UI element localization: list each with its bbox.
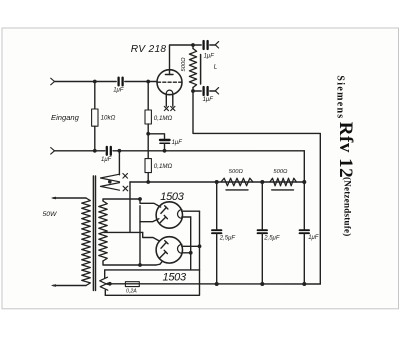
wire to V2 bottom [156, 261, 162, 265]
svg-text:0,1MΩ: 0,1MΩ [154, 163, 173, 170]
U1 cathode circle [166, 90, 173, 97]
capacitor C4 1uF (output top) [204, 41, 208, 49]
wire anode V1 step [140, 199, 161, 207]
V2 filament wires [182, 245, 200, 247]
wire bus x140 down [139, 206, 141, 265]
svg-text:1μF: 1μF [172, 140, 183, 146]
HV centre tap [104, 231, 143, 233]
node grid junction [146, 80, 150, 84]
capacitor C9 1uF [303, 182, 305, 229]
node wire1-10k junction [93, 80, 97, 84]
svg-text:1μF: 1μF [101, 157, 112, 163]
bottom rail [107, 283, 321, 285]
X marks W1 [123, 174, 128, 191]
svg-text:50W: 50W [43, 211, 58, 218]
T1 HV secondary winding [99, 201, 107, 261]
capacitor C7 2,5uF [216, 182, 218, 229]
svg-text:500Ω: 500Ω [229, 169, 244, 175]
wire V1 second anode [140, 219, 159, 222]
V2 filament tab [177, 244, 181, 253]
wire heater top lead [105, 270, 200, 278]
V1 electrodes [161, 207, 167, 213]
node bottom of choke [191, 89, 195, 93]
heater terminal X marks U1 [164, 106, 175, 110]
node top rail [191, 43, 195, 47]
wire2 right drop [303, 151, 305, 182]
svg-text:500Ω: 500Ω [181, 57, 187, 72]
svg-text:0,1MΩ: 0,1MΩ [154, 115, 173, 122]
svg-text:500Ω: 500Ω [273, 169, 288, 175]
HT rail (filter) [130, 181, 304, 183]
T1 primary winding [82, 198, 91, 286]
svg-text:(Netzendstufe): (Netzendstufe) [343, 177, 353, 236]
wire feed: choke bottom to right bus [193, 91, 320, 284]
V1 filament tab [178, 210, 182, 219]
svg-text:Eingang: Eingang [51, 113, 80, 122]
V1 filament wires [182, 210, 200, 212]
wire tap step to V2 anode [143, 232, 160, 241]
node fuse line left [108, 282, 112, 286]
U1 grid (dashed) [158, 81, 182, 83]
resistor R4 500 Ohm [221, 178, 253, 186]
resistor R5 500 Ohm [270, 178, 297, 186]
U1 heater leads [165, 95, 167, 106]
choke L 500 Ohm winding [192, 45, 194, 49]
wire rail to C4 [193, 44, 201, 46]
input terminal J2 [51, 148, 55, 155]
capacitor C2 1uF (series, input bottom) [107, 147, 111, 155]
svg-text:0,2A: 0,2A [126, 288, 137, 294]
wire cap to grid [125, 81, 157, 83]
output terminal bottom [215, 88, 218, 94]
resistor R1 10kOhm [94, 82, 96, 110]
transformer T1 primary terminal top [51, 197, 56, 200]
HV bottom lead [103, 261, 156, 265]
wire input bottom [55, 150, 105, 152]
wire to C5 [193, 90, 201, 92]
wire plate to top rail [170, 45, 193, 70]
wire input top [55, 81, 117, 83]
T1 primary terminal bottom [53, 285, 86, 287]
wire junction to C6 [148, 134, 164, 139]
tube V1 1503 envelope [156, 202, 182, 228]
resistor R3 0,1MOhm [147, 134, 149, 159]
svg-text:1μF: 1μF [113, 88, 124, 94]
T1 core [92, 176, 94, 291]
wire heater tap down [118, 151, 120, 175]
svg-text:1μF: 1μF [308, 235, 319, 241]
nodes bottom rail [215, 282, 219, 286]
capacitor C1 1uF (series, input top) [119, 78, 123, 86]
tube V2 1503 envelope [156, 237, 182, 263]
fuse F1 0,2A [125, 282, 139, 287]
svg-text:RV 218: RV 218 [131, 44, 167, 55]
wire2 across [113, 150, 304, 152]
node HV bottom lead junction [138, 263, 142, 267]
svg-text:L: L [214, 64, 218, 71]
U1 anode [169, 70, 171, 75]
tube U1 RV218 envelope [157, 70, 182, 95]
wire rail left drop to centre tap [129, 182, 131, 232]
wire heater bottom lead [104, 290, 106, 295]
svg-text:2,5μF: 2,5μF [219, 235, 236, 241]
capacitor C6 1uF (shunt) [160, 140, 170, 143]
choke core bar [200, 55, 202, 85]
svg-text:Rfv 12: Rfv 12 [335, 122, 356, 178]
capacitor C5 1uF (output bottom) [204, 87, 208, 95]
capacitor C8 2,5uF [261, 182, 263, 229]
svg-text:1μF: 1μF [203, 97, 214, 103]
output terminal top [215, 42, 218, 48]
input terminal J1 [51, 78, 55, 85]
heater winding W1 chevrons (RV218 heater) [101, 174, 120, 182]
V2 electrodes [161, 242, 167, 248]
wire vertical Q (filament bus 2) [190, 217, 192, 270]
heater winding W2 chevrons (1503 heater) [100, 277, 108, 284]
svg-text:1503: 1503 [163, 271, 187, 283]
svg-text:10kΩ: 10kΩ [101, 115, 116, 122]
node heater tap [118, 149, 122, 153]
resistor R2 0,1MOhm [147, 82, 149, 111]
HV top lead [103, 199, 140, 201]
node R2/R3 junction [146, 132, 150, 136]
svg-text:1μF: 1μF [204, 54, 215, 60]
svg-text:2,5μF: 2,5μF [263, 235, 280, 241]
wire vertical P (filament bus) [105, 211, 199, 295]
svg-text:Siemens: Siemens [334, 75, 345, 119]
svg-text:1503: 1503 [160, 191, 184, 203]
